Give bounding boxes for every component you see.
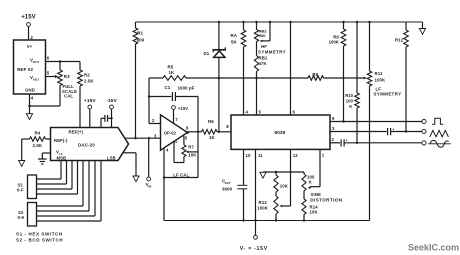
svg-text:10K: 10K <box>280 183 289 188</box>
svg-text:1K: 1K <box>169 70 176 75</box>
svg-text:R2: R2 <box>84 73 90 78</box>
svg-text:+15V: +15V <box>84 98 96 104</box>
svg-text:R1: R1 <box>137 31 143 36</box>
svg-text:500: 500 <box>259 33 266 38</box>
svg-text:R4: R4 <box>35 130 41 135</box>
svg-text:ADJ: ADJ <box>33 77 39 81</box>
svg-text:R12: R12 <box>395 38 404 43</box>
svg-text:REF(-): REF(-) <box>54 138 68 143</box>
svg-text:100K: 100K <box>329 39 340 44</box>
svg-text:R8: R8 <box>312 72 318 77</box>
svg-text:S2 - BCD SWITCH: S2 - BCD SWITCH <box>16 237 63 242</box>
svg-text:R3: R3 <box>64 74 70 79</box>
svg-text:11: 11 <box>258 153 263 158</box>
svg-text:GND: GND <box>25 88 35 93</box>
svg-text:SYMMETRY: SYMMETRY <box>258 50 286 55</box>
svg-text:K: K <box>349 104 352 109</box>
svg-text:10K: 10K <box>188 153 197 158</box>
svg-text:V+: V+ <box>27 44 33 49</box>
svg-text:10: 10 <box>246 153 251 158</box>
svg-text:CAL: CAL <box>64 94 73 99</box>
svg-text:100: 100 <box>346 99 354 104</box>
svg-text:100K: 100K <box>375 77 386 82</box>
svg-text:8038: 8038 <box>275 130 286 135</box>
svg-text:R14: R14 <box>310 204 319 209</box>
svg-text:HF: HF <box>261 44 267 49</box>
svg-text:RB1: RB1 <box>259 56 268 61</box>
svg-text:REF(+): REF(+) <box>69 129 84 134</box>
svg-text:2.5K: 2.5K <box>33 143 43 148</box>
svg-text:+: + <box>346 139 348 143</box>
svg-text:R11: R11 <box>375 71 383 76</box>
svg-text:LF: LF <box>376 86 382 91</box>
svg-text:OP-02: OP-02 <box>164 130 177 135</box>
svg-text:3600: 3600 <box>222 186 233 191</box>
svg-text:5K: 5K <box>231 40 238 45</box>
svg-text:909: 909 <box>137 37 145 42</box>
svg-text:5: 5 <box>47 71 50 76</box>
svg-text:+15V: +15V <box>178 106 188 111</box>
svg-text:0-9: 0-9 <box>18 215 25 220</box>
svg-text:+15V: +15V <box>21 15 36 21</box>
svg-text:R5: R5 <box>168 65 174 70</box>
svg-text:R10: R10 <box>345 93 353 98</box>
svg-text:2.5K: 2.5K <box>84 79 94 84</box>
svg-text:MSB: MSB <box>57 156 67 161</box>
svg-text:100K: 100K <box>257 205 268 210</box>
svg-text:DISTORTION: DISTORTION <box>310 197 343 202</box>
svg-text:6: 6 <box>47 56 50 61</box>
svg-text:10K: 10K <box>310 210 319 215</box>
svg-text:-15V: -15V <box>106 98 117 104</box>
svg-text:LSB: LSB <box>107 156 116 161</box>
svg-text:+: + <box>392 127 394 131</box>
svg-text:R7: R7 <box>188 144 194 149</box>
svg-text:0-F: 0-F <box>17 188 24 193</box>
svg-text:12: 12 <box>293 153 298 158</box>
svg-text:SeekIC.com: SeekIC.com <box>408 242 459 252</box>
svg-text:REF 02: REF 02 <box>17 67 33 72</box>
svg-text:V- = -15V: V- = -15V <box>240 246 268 252</box>
svg-text:RA: RA <box>231 33 238 38</box>
svg-text:LF CAL: LF CAL <box>173 172 189 177</box>
svg-text:SYMMETRY: SYMMETRY <box>374 92 402 97</box>
svg-text:D1: D1 <box>204 51 210 56</box>
svg-text:1000 pF: 1000 pF <box>178 86 195 91</box>
svg-text:SINE: SINE <box>311 192 321 197</box>
svg-text:1K: 1K <box>209 135 216 140</box>
svg-text:EXT: EXT <box>225 181 231 185</box>
svg-text:OUT: OUT <box>33 60 40 64</box>
svg-text:47K: 47K <box>259 61 268 66</box>
svg-text:R6: R6 <box>208 119 214 124</box>
svg-text:S1 - HEX SWITCH: S1 - HEX SWITCH <box>16 231 63 236</box>
svg-text:DAC-20: DAC-20 <box>78 142 95 147</box>
svg-text:C1: C1 <box>165 85 171 90</box>
